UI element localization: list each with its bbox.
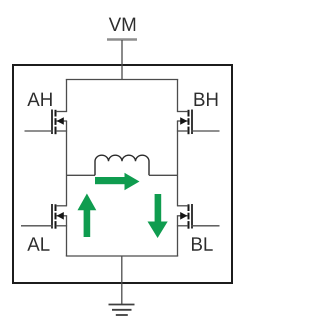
current arrow right (through motor) [95, 173, 140, 190]
ground symbol [109, 305, 135, 316]
gate wire BH [192, 130, 220, 132]
wire VM to inner top rail [121, 40, 123, 80]
label BL [192, 237, 213, 250]
label AH [27, 93, 51, 106]
wire motor row left [67, 174, 96, 176]
wire right leg upper (top rail to BH drain) [177, 80, 179, 112]
wire left leg lower (AL source to bottom rail) [66, 216, 68, 257]
inductor motor coil [95, 155, 149, 175]
transistor BL (low-side N-MOSFET, right) [177, 204, 192, 229]
gate wire BL [192, 225, 220, 227]
wire right leg lower (BL source to bottom rail) [177, 216, 179, 257]
transistor AL (low-side N-MOSFET, left) [52, 204, 67, 229]
label AL [27, 237, 49, 250]
outer box (driver IC boundary) [13, 65, 232, 283]
wire inner top rail [66, 79, 178, 81]
label BH [195, 93, 218, 106]
VM label [109, 18, 135, 31]
gate wire AH [25, 130, 53, 132]
transistor AH (high-side N-MOSFET, left) [52, 110, 67, 135]
transistor BH (high-side N-MOSFET, right) [177, 110, 192, 135]
wire right leg middle (BH source node to BL drain) [177, 121, 179, 206]
gate wire AL [21, 225, 53, 227]
current arrow up (left leg) [78, 194, 97, 238]
wire inner bottom rail [66, 255, 178, 257]
wire left leg upper (top rail to AH drain) [66, 80, 68, 112]
wire motor row right [149, 174, 178, 176]
wire left leg middle (AH source node to AL drain) [66, 121, 68, 206]
current arrow down (right leg) [148, 194, 168, 238]
wire bottom rail to ground [121, 256, 123, 305]
VM supply rail bar [107, 38, 137, 41]
